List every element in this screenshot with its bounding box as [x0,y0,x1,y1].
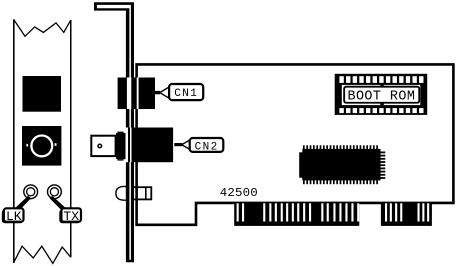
LED LK [24,185,38,199]
svg-text:TX: TX [63,209,79,224]
svg-text:CN2: CN2 [195,141,219,153]
card outline [137,64,454,224]
AUI connector front [23,76,62,112]
bracket [94,2,134,262]
pointer wedge LK [14,196,31,210]
IC chip [299,145,385,184]
panel top break (zigzag) [14,20,71,37]
part number 42500 [220,186,258,200]
edge connector fingers [234,203,432,226]
panel strip right edge [70,20,72,257]
callout label TX [59,208,81,224]
panel bottom break (zigzag) [14,246,71,263]
BNC connector front [22,126,61,166]
panel strip left edge [13,19,15,263]
LED holder at bracket [130,186,151,200]
callout label CN2 [174,138,223,153]
svg-text:CN1: CN1 [174,88,198,100]
connector CN1 block [118,78,155,110]
pointer wedge TX [50,196,67,210]
callout label CN1 [155,84,203,100]
svg-text:LK: LK [6,209,22,224]
bracket white stripes across CN2 [126,128,136,163]
LED TX [48,185,62,199]
connector CN2 block [135,128,173,163]
svg-text:42500: 42500 [220,186,258,200]
svg-text:BOOT ROM: BOOT ROM [347,89,415,104]
callout label LK [2,208,24,224]
BOOT ROM socket [335,74,428,115]
bracket white stripes across CN1 [127,78,139,110]
LED dome at bracket [116,186,127,200]
BNC jack side view [91,132,126,161]
